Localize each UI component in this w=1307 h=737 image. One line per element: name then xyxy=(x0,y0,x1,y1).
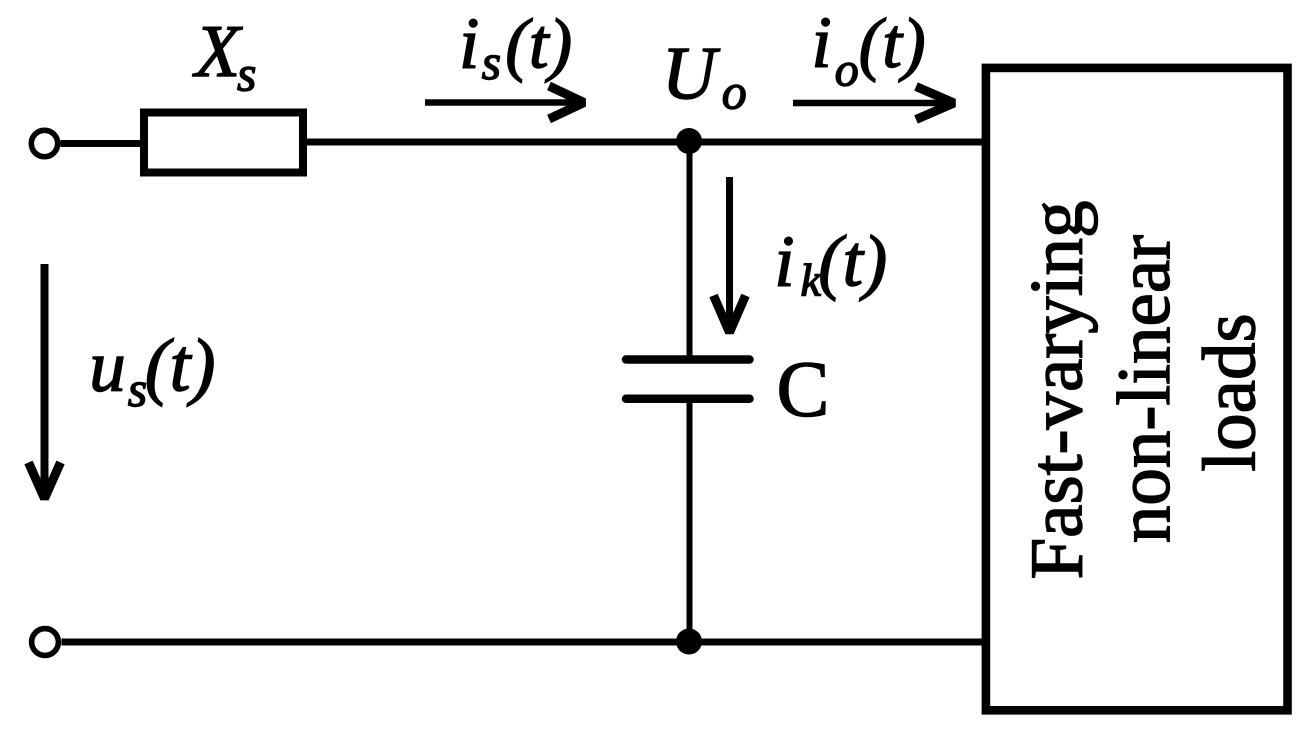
svg-text:i: i xyxy=(774,221,794,302)
svg-text:C: C xyxy=(777,346,830,433)
svg-text:non-linear: non-linear xyxy=(1103,235,1186,543)
svg-text:s: s xyxy=(482,34,501,90)
svg-text:(t): (t) xyxy=(818,221,887,302)
svg-text:s: s xyxy=(128,361,147,417)
svg-text:(t): (t) xyxy=(859,5,926,83)
svg-text:o: o xyxy=(835,44,859,97)
svg-text:k: k xyxy=(801,254,823,305)
svg-text:u: u xyxy=(89,326,126,407)
svg-text:U: U xyxy=(662,32,721,115)
svg-text:i: i xyxy=(459,3,479,84)
svg-text:(t): (t) xyxy=(505,6,572,84)
svg-text:loads: loads xyxy=(1189,313,1272,471)
svg-text:(t): (t) xyxy=(145,325,216,408)
svg-text:i: i xyxy=(811,1,831,82)
svg-text:Fast-varying: Fast-varying xyxy=(1016,200,1099,579)
svg-text:o: o xyxy=(722,64,747,120)
svg-text:X: X xyxy=(192,11,243,93)
svg-text:s: s xyxy=(237,45,256,101)
